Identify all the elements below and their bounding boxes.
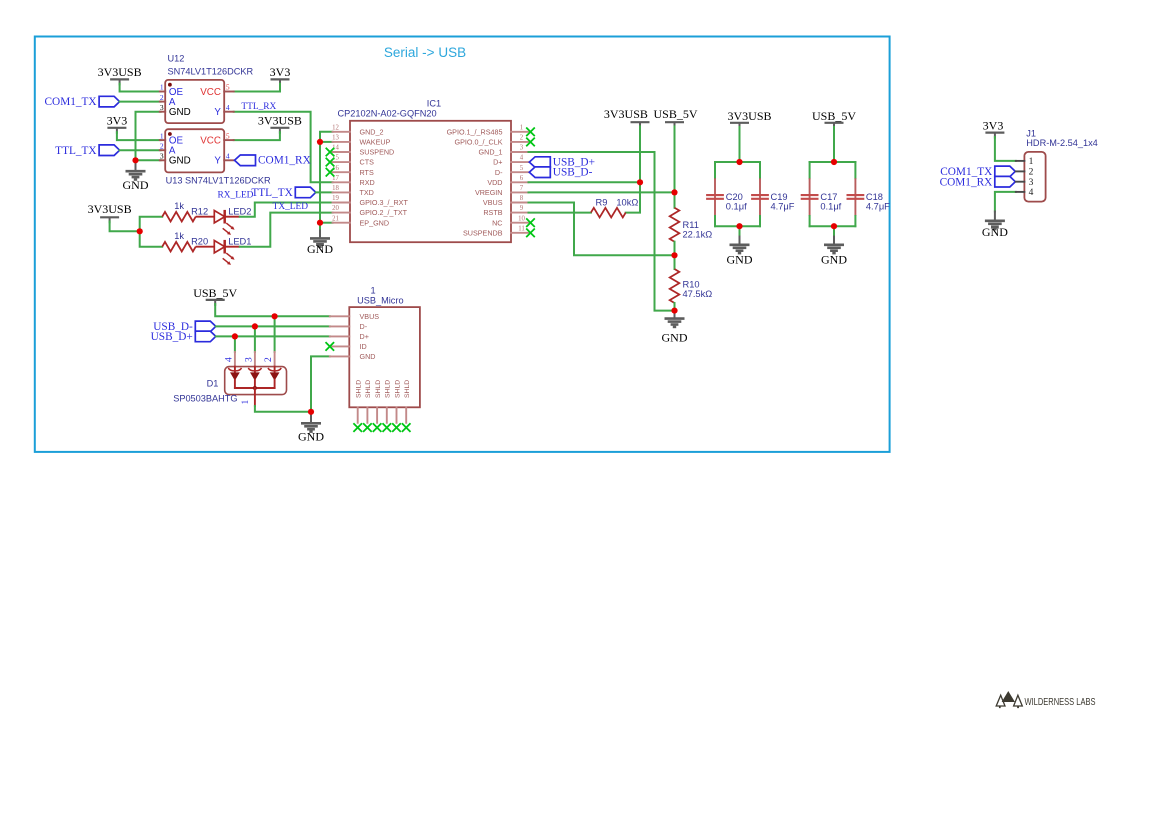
USB_Micro SHLD pin 2 (366, 407, 368, 423)
IC1 right pin 2 GPIO.0_/_CLK (511, 141, 529, 143)
cap top rail (810, 161, 856, 163)
net flag COM1_TX (to J1 pin 2) (995, 166, 1016, 177)
svg-text:R9: R9 (596, 197, 608, 207)
IC1 left pin 17 RXD (333, 181, 351, 183)
wire diode pin 4 to D+ line (234, 336, 236, 352)
svg-text:6: 6 (520, 175, 524, 182)
wire IC1 GND_2 pin 12 to ground rail (320, 132, 333, 142)
svg-text:Serial -> USB: Serial -> USB (384, 45, 466, 60)
svg-text:SN74LV1T126DCKR: SN74LV1T126DCKR (168, 66, 254, 76)
wire 3V3USB down to cap rail (739, 127, 741, 162)
IC IC1 CP2102N-A02-GQFN20 body (350, 121, 511, 242)
IC1 right pin 9 RSTB (511, 212, 529, 214)
svg-text:COM1_RX: COM1_RX (940, 176, 993, 188)
svg-text:D+: D+ (493, 158, 502, 167)
buffer U13 SN74LV1T126DCKR (165, 129, 224, 172)
cap bottom rail (715, 225, 760, 227)
svg-text:4: 4 (1029, 188, 1034, 198)
svg-text:47.5kΩ: 47.5kΩ (683, 289, 713, 299)
svg-text:LED1: LED1 (228, 236, 251, 246)
wire USB_5V down to cap rail (833, 127, 835, 162)
svg-text:GND: GND (169, 107, 191, 118)
net flag USB_D- (IC1 pin 5) (529, 167, 550, 178)
svg-text:TXD: TXD (360, 188, 374, 197)
svg-text:3: 3 (1029, 178, 1034, 188)
wire rail to ground (833, 226, 835, 236)
svg-text:VDD: VDD (487, 178, 502, 187)
power 3V3USB (above U13 VCC) (270, 127, 289, 129)
TVS diode element pin 3 (254, 352, 256, 367)
power USB_5V (pull-up rail) (665, 121, 684, 123)
USB_Micro pin D- (330, 325, 350, 327)
TVS diode element pin 4 (234, 352, 236, 367)
svg-text:TTL_RX: TTL_RX (241, 102, 276, 112)
svg-text:4: 4 (520, 155, 524, 162)
ground symbol below USB_Micro (310, 412, 312, 424)
svg-text:5: 5 (226, 83, 230, 92)
USB_Micro SHLD pin 3 (376, 407, 378, 423)
power 3V3USB (LED supply) (100, 216, 119, 218)
LED LED1 (196, 246, 215, 248)
wire 3V3 to U13 OE pin 1 (117, 132, 161, 140)
power 3V3USB (above C20/C19) (730, 122, 749, 124)
ground symbol below J1 (994, 212, 996, 221)
D1 pin 1 to ground (254, 388, 256, 406)
svg-text:18: 18 (332, 185, 339, 192)
svg-text:IC1: IC1 (427, 98, 441, 108)
IC1 left pin 19 GPIO.3_/_RXT (333, 202, 351, 204)
svg-text:3V3USB: 3V3USB (258, 114, 302, 128)
IC1 left pin 12 GND_2 (333, 131, 351, 133)
svg-text:SHLD: SHLD (365, 380, 372, 398)
wire 3V3 to J1 pin 1 (995, 137, 1016, 161)
net flag TTL_TX (to U13 A) (99, 145, 120, 156)
power 3V3USB (right of IC1) (631, 121, 650, 123)
svg-text:2: 2 (1029, 168, 1034, 178)
wire J1 pin 4 to ground (995, 192, 1016, 212)
svg-text:USB_Micro: USB_Micro (357, 295, 403, 305)
svg-text:8: 8 (520, 195, 524, 202)
svg-text:GND: GND (982, 225, 1008, 239)
svg-text:VCC: VCC (200, 136, 221, 147)
svg-text:Y: Y (214, 156, 221, 167)
svg-text:11: 11 (518, 225, 525, 232)
svg-text:0.1μf: 0.1μf (726, 201, 747, 211)
svg-text:19: 19 (332, 195, 339, 202)
svg-text:2: 2 (160, 141, 164, 150)
no-connect X pins 14-16 (326, 148, 335, 157)
resistor R9 10k (591, 208, 626, 218)
svg-text:SHLD: SHLD (375, 380, 382, 398)
net flag COM1_RX (to J1 pin 3) (995, 176, 1016, 187)
svg-text:3: 3 (520, 145, 524, 152)
svg-text:U13 SN74LV1T126DCKR: U13 SN74LV1T126DCKR (166, 176, 271, 186)
wire diode pin 3 to D- line (254, 326, 256, 352)
svg-text:GND_1: GND_1 (479, 148, 503, 157)
connector J1 HDR-M-2.54_1x4 body (1024, 152, 1045, 202)
svg-text:3V3: 3V3 (983, 119, 1004, 133)
svg-text:D-: D- (360, 322, 368, 331)
wire 3V3USB to U12 OE pin 1 (120, 84, 161, 92)
capacitor C19 4.7μF (759, 162, 761, 178)
svg-text:GND: GND (123, 178, 149, 192)
J1 pin 3 (1016, 181, 1025, 183)
svg-text:RSTB: RSTB (483, 208, 502, 217)
IC1 left pin 14 SUSPEND (333, 151, 351, 153)
wire diode pin 2 to VBUS line (274, 316, 276, 352)
IC1 left pin 21 EP_GND (333, 222, 351, 224)
buffer U12 SN74LV1T126DCKR (165, 80, 224, 123)
IC1 right pin 10 NC (511, 222, 529, 224)
svg-text:SUSPEND: SUSPEND (360, 148, 395, 157)
svg-text:R12: R12 (191, 206, 208, 216)
svg-text:NC: NC (492, 218, 502, 227)
power 3V3 (above-right of U12) (271, 78, 290, 80)
svg-text:1: 1 (1029, 157, 1034, 167)
svg-text:RXD: RXD (360, 178, 375, 187)
J1 pin 4 (1016, 191, 1025, 193)
resistor R11 22.1k (670, 208, 680, 242)
cap bottom rail (810, 225, 856, 227)
power 3V3 (above U13) (107, 127, 126, 129)
svg-text:1: 1 (160, 131, 164, 140)
wire R11 to R10 (674, 242, 676, 269)
svg-text:13: 13 (332, 135, 339, 142)
svg-text:1k: 1k (174, 231, 184, 241)
USB_Micro pin D+ (330, 335, 350, 337)
power 3V3USB (above U12) (110, 78, 129, 80)
svg-text:LED2: LED2 (228, 206, 251, 216)
svg-text:4.7μF: 4.7μF (771, 201, 795, 211)
wire GND_1 pin 3 to bottom ground (529, 152, 675, 311)
svg-text:D-: D- (495, 168, 503, 177)
svg-text:TTL_TX: TTL_TX (251, 187, 292, 199)
wire TTL_TX flag to U13 pin 2 (120, 149, 161, 151)
USB_Micro SHLD pin 6 (405, 407, 407, 423)
IC1 right pin 5 D- (511, 171, 529, 173)
svg-text:SP0503BAHTG: SP0503BAHTG (173, 394, 237, 404)
svg-text:SHLD: SHLD (394, 380, 401, 398)
svg-text:4.7μF: 4.7μF (866, 201, 890, 211)
TVS diode element pin 2 (274, 352, 276, 367)
svg-text:10: 10 (518, 215, 525, 222)
IC1 left pin 16 RTS (333, 171, 351, 173)
resistor R12 1k (162, 212, 195, 222)
power 3V3 (above J1) (985, 132, 1004, 134)
ground symbol below IC1 (319, 231, 321, 239)
diode array D1 SP0503BAHTG body (225, 367, 287, 395)
svg-text:USB_D-: USB_D- (553, 167, 593, 179)
capacitor C18 4.7μF (854, 162, 856, 178)
svg-text:TTL_TX: TTL_TX (55, 145, 96, 157)
wire TTL_TX flag to pin 18 (316, 191, 333, 193)
svg-text:U12: U12 (168, 54, 185, 64)
svg-text:VREGIN: VREGIN (475, 188, 503, 197)
wire 3V3USB to LED branch junction (110, 222, 140, 232)
svg-text:10kΩ: 10kΩ (616, 197, 638, 207)
svg-text:4: 4 (226, 103, 230, 112)
svg-text:TX_LED: TX_LED (273, 202, 309, 212)
D1 internal common bus (235, 387, 275, 389)
capacitor C20 0.1μf (714, 162, 716, 178)
wire 3V3USB down to junction (639, 126, 641, 182)
svg-text:GND: GND (169, 156, 191, 167)
svg-text:R20: R20 (191, 236, 208, 246)
svg-text:CTS: CTS (360, 158, 375, 167)
IC1 left pin 15 CTS (333, 161, 351, 163)
wire D1 pin 1 to ground junction (255, 406, 311, 412)
svg-text:SHLD: SHLD (404, 380, 411, 398)
svg-text:3: 3 (160, 103, 164, 112)
IC1 right pin 1 GPIO.1_/_RS485 (511, 131, 529, 133)
IC1 right pin 8 VBUS (511, 202, 529, 204)
svg-text:SHLD: SHLD (385, 380, 392, 398)
IC1 right pin 7 VREGIN (511, 191, 529, 193)
svg-text:USB_5V: USB_5V (193, 286, 237, 300)
svg-text:3V3USB: 3V3USB (604, 107, 648, 121)
cap top rail (715, 161, 760, 163)
net flag COM1_RX (from U13 Y) (235, 155, 256, 166)
svg-text:GND: GND (662, 330, 688, 344)
resistor R20 1k (162, 242, 195, 252)
svg-text:7: 7 (520, 185, 524, 192)
svg-text:22.1kΩ: 22.1kΩ (683, 229, 713, 239)
wire USB_Micro GND to ground junction (311, 356, 330, 411)
svg-text:VBUS: VBUS (360, 312, 380, 321)
svg-text:0.1μf: 0.1μf (820, 201, 841, 211)
svg-text:D1: D1 (207, 378, 219, 388)
wire U12 GND pin 3 down to GND junction (136, 112, 161, 161)
svg-text:GPIO.1_/_RS485: GPIO.1_/_RS485 (447, 127, 503, 136)
junction dots (132, 157, 138, 163)
svg-text:5: 5 (520, 165, 524, 172)
J1 pin 1 (1016, 160, 1025, 162)
USB_Micro pin ID (330, 345, 350, 347)
svg-text:CP2102N-A02-GQFN20: CP2102N-A02-GQFN20 (338, 109, 437, 119)
svg-text:GPIO.0_/_CLK: GPIO.0_/_CLK (455, 138, 503, 147)
svg-text:4: 4 (226, 152, 230, 161)
wire RSTB pin 9 to R9 (529, 212, 591, 214)
wire to resistor R20 (140, 231, 163, 246)
svg-text:GPIO.2_/_TXT: GPIO.2_/_TXT (360, 208, 408, 217)
USB_Micro SHLD pin 5 (396, 407, 398, 423)
wire LED2 to IC1 pin 19 (RX_LED) (240, 203, 333, 217)
svg-text:GND: GND (360, 352, 376, 361)
ground symbol below R10 (674, 311, 676, 319)
svg-text:2: 2 (160, 93, 164, 102)
svg-text:D+: D+ (360, 332, 369, 341)
svg-text:1: 1 (371, 286, 376, 296)
svg-text:3V3USB: 3V3USB (727, 109, 771, 123)
svg-text:COM1_TX: COM1_TX (45, 96, 97, 108)
svg-text:COM1_RX: COM1_RX (258, 155, 311, 167)
no-connect X pins 1,2,10,11 (526, 128, 535, 137)
wire rail to ground (739, 226, 741, 236)
sheet border frame (35, 37, 890, 452)
svg-text:GPIO.3_/_RXT: GPIO.3_/_RXT (360, 198, 409, 207)
ground symbol below C17 (833, 237, 835, 245)
ground symbol below C20 (739, 237, 741, 245)
svg-text:4: 4 (224, 357, 234, 362)
svg-text:EP_GND: EP_GND (360, 218, 390, 227)
USB_Micro SHLD pin 4 (386, 407, 388, 423)
no-connect X at ID pin (326, 342, 335, 351)
svg-text:WAKEUP: WAKEUP (360, 138, 391, 147)
wire IC1 EP_GND pin 21 to rail (320, 222, 333, 224)
wire USB_5V down to R11 (674, 126, 676, 207)
svg-text:GND: GND (307, 242, 333, 256)
wire U12 VCC to 3V3 (234, 84, 280, 92)
wire USB_D- to D- pin (216, 325, 330, 327)
net flag USB_D+ (to USB_Micro D+) (195, 331, 216, 342)
capacitor C17 0.1μf (809, 162, 811, 178)
wire VREGIN pin 7 to USB_5V rail (529, 191, 675, 193)
svg-text:9: 9 (520, 205, 524, 212)
svg-text:3: 3 (244, 357, 254, 362)
svg-text:3: 3 (160, 152, 164, 161)
wire U13 GND pin 3 to GND junction (136, 159, 161, 161)
svg-text:1: 1 (241, 400, 251, 405)
svg-text:3V3: 3V3 (270, 65, 291, 79)
svg-text:1: 1 (160, 83, 164, 92)
svg-text:HDR-M-2.54_1x4: HDR-M-2.54_1x4 (1026, 138, 1097, 148)
svg-text:GND_2: GND_2 (360, 127, 384, 136)
svg-text:1k: 1k (174, 201, 184, 211)
net flag USB_D+ (IC1 pin 4) (529, 157, 550, 168)
svg-text:USB_5V: USB_5V (812, 109, 856, 123)
wire IC1 WAKEUP pin 13 / vertical ground rail (320, 141, 333, 143)
svg-text:12: 12 (332, 124, 339, 131)
svg-text:2: 2 (520, 135, 524, 142)
svg-text:ID: ID (360, 342, 367, 351)
USB_Micro pin VBUS (330, 315, 350, 317)
svg-text:USB_5V: USB_5V (653, 107, 697, 121)
IC1 right pin 4 D+ (511, 161, 529, 163)
wire COM1_TX flag to U12 pin 2 (120, 101, 161, 103)
svg-text:3V3USB: 3V3USB (88, 202, 132, 216)
IC1 left pin 18 TXD (333, 191, 351, 193)
net flag COM1_TX (to U12 A) (99, 96, 120, 107)
svg-text:USB_D+: USB_D+ (151, 331, 193, 343)
USB_Micro pin GND (330, 355, 350, 357)
svg-text:21: 21 (332, 215, 339, 222)
svg-text:20: 20 (332, 205, 339, 212)
svg-text:GND: GND (298, 429, 324, 443)
IC1 left pin 13 WAKEUP (333, 141, 351, 143)
power USB_5V (above C17/C18) (825, 122, 844, 124)
J1 pin 2 (1016, 170, 1025, 172)
wire junction down to R9 (626, 182, 640, 212)
svg-text:SHLD: SHLD (356, 380, 363, 398)
connector USB_Micro body (349, 307, 420, 407)
IC1 left pin 20 GPIO.2_/_TXT (333, 212, 351, 214)
svg-text:5: 5 (226, 131, 230, 140)
svg-text:3V3: 3V3 (107, 114, 128, 128)
power USB_5V (above USB_Micro) (206, 299, 225, 301)
IC1 right pin 6 VDD (511, 181, 529, 183)
wire R10 to ground (674, 303, 676, 311)
svg-text:VCC: VCC (200, 87, 221, 98)
svg-text:1: 1 (520, 124, 523, 131)
svg-text:RX_LED: RX_LED (218, 191, 254, 201)
svg-text:VBUS: VBUS (483, 198, 503, 207)
USB_Micro SHLD pin 1 (357, 407, 359, 423)
LED LED2 (196, 216, 215, 218)
wire to resistor R12 (140, 217, 163, 232)
svg-text:SUSPENDB: SUSPENDB (463, 228, 503, 237)
svg-text:RTS: RTS (360, 168, 374, 177)
svg-text:GND: GND (821, 253, 847, 267)
wire USB_D+ to D+ pin (216, 335, 330, 337)
wire VBUS pin 8 to divider tap (529, 203, 675, 256)
IC1 right pin 3 GND_1 (511, 151, 529, 153)
IC1 right pin 11 SUSPENDB (511, 232, 529, 234)
svg-text:J1: J1 (1026, 128, 1036, 138)
resistor R10 47.5k (670, 269, 680, 303)
Wilderness Labs logo mountains (996, 692, 1022, 707)
wire U13 VCC to 3V3USB (234, 132, 280, 140)
svg-text:WILDERNESS LABS: WILDERNESS LABS (1025, 697, 1096, 708)
svg-text:GND: GND (727, 253, 753, 267)
net flag USB_D- (to USB_Micro D-) (195, 321, 216, 332)
wire USB_5V to VBUS pin (215, 304, 330, 316)
svg-text:3V3USB: 3V3USB (98, 65, 142, 79)
wire LED1 to IC1 pin 20 (TX_LED) (240, 213, 333, 247)
ground symbol below U13 (135, 160, 137, 171)
svg-text:2: 2 (264, 357, 274, 362)
wire TTL_RX from U12 Y to IC1 RXD pin 17 (234, 112, 333, 183)
svg-text:Y: Y (214, 107, 221, 118)
wire VDD pin 6 to 3V3USB (529, 181, 641, 183)
net flag TTL_TX (to IC1 TXD pin 18) (295, 187, 316, 198)
